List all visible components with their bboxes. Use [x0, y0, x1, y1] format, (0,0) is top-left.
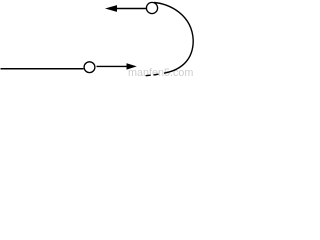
- svg-text:manfen5.com: manfen5.com: [128, 67, 193, 77]
